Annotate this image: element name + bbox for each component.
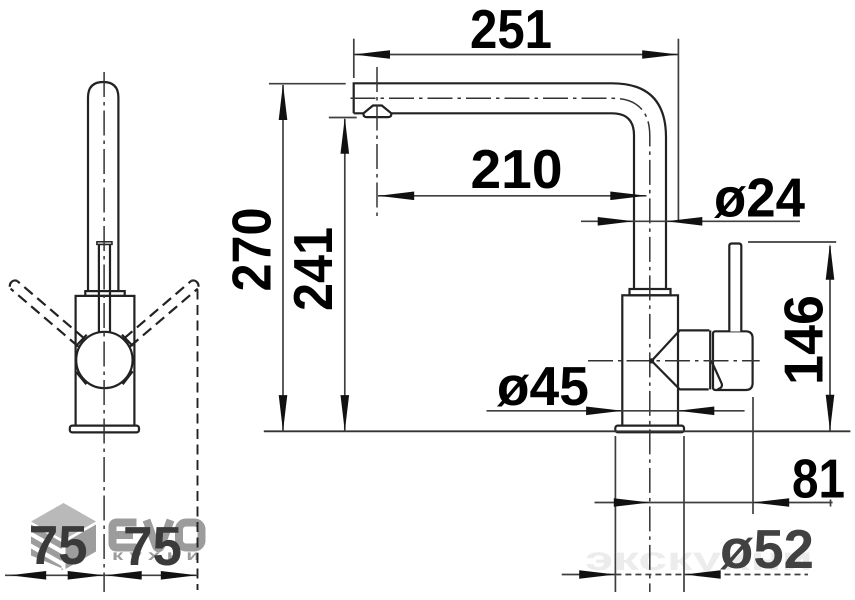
dim o24 arrow right bbox=[666, 217, 702, 226]
watermark cube top face bbox=[31, 503, 96, 540]
handle lever rod bbox=[729, 244, 741, 332]
dim 146 line bbox=[829, 246, 831, 431]
dim 241 ext top bbox=[329, 117, 357, 119]
dim 270 arrow up bbox=[279, 84, 288, 120]
dashed projection vertical right bbox=[197, 290, 199, 591]
front lever rod top cap bbox=[97, 242, 112, 245]
handle lever edge in grip bbox=[712, 362, 722, 390]
dim o24 arrow left bbox=[598, 217, 634, 226]
dim 75 line bbox=[5, 574, 198, 576]
dim 251 ext right bbox=[677, 39, 679, 222]
dim o52 line solid bbox=[562, 574, 616, 576]
front body cylinder bbox=[76, 296, 135, 426]
dim o45 line bbox=[487, 410, 745, 412]
front base flange bbox=[70, 426, 139, 433]
handle cone right edge bbox=[709, 330, 711, 389]
front cone tangent upper-left bbox=[76, 335, 87, 346]
dim 75 arrow far right bbox=[161, 571, 197, 580]
svg-text:75: 75 bbox=[29, 514, 88, 576]
dim 251 ext left bbox=[353, 39, 355, 78]
dim 75 arrow center right-point bbox=[68, 571, 104, 580]
dim 210 arrow left bbox=[378, 192, 414, 201]
front spout tube with dome top bbox=[88, 82, 118, 291]
svg-text:210: 210 bbox=[471, 138, 563, 200]
dim 241 arrow up bbox=[341, 118, 350, 154]
dim 210 arrow right bbox=[610, 192, 646, 201]
dim o45 arrow left bbox=[586, 407, 622, 416]
dim o24 line bbox=[581, 220, 800, 222]
front lever rod vertical bbox=[99, 244, 110, 334]
dim 81 arrow right bbox=[753, 498, 789, 507]
front ball joint circle bbox=[76, 332, 132, 388]
dim 251 arrow right bbox=[642, 50, 678, 59]
svg-text:75: 75 bbox=[123, 515, 182, 577]
svg-text:81: 81 bbox=[792, 447, 845, 509]
front centerline bbox=[103, 72, 105, 592]
front collar under spout bbox=[85, 291, 124, 296]
dim 81 end tick bbox=[830, 500, 832, 507]
dim o52 line dashed bbox=[615, 574, 684, 576]
side body cylinder bbox=[622, 295, 678, 425]
dim o45 arrow right bbox=[678, 407, 714, 416]
dim 270 ext top bbox=[269, 83, 346, 85]
dim o52 line dashed right bbox=[685, 574, 809, 576]
dim 270 line bbox=[282, 85, 284, 431]
counter baseline bbox=[264, 430, 851, 432]
svg-text:ø24: ø24 bbox=[714, 167, 805, 229]
extension below base right bbox=[683, 436, 685, 592]
handle cone joint bbox=[652, 330, 710, 389]
dim 241 line bbox=[344, 119, 346, 431]
dim 241 arrow down bbox=[341, 395, 350, 431]
svg-text:270: 270 bbox=[220, 208, 282, 292]
dashed lever swung left line2 bbox=[11, 289, 79, 347]
watermark EVO letter V bbox=[147, 520, 171, 548]
dashed lever swung left line1 bbox=[17, 281, 84, 339]
dim o52 arrow right bbox=[685, 570, 721, 579]
dashed lever swung right line1 bbox=[124, 281, 191, 339]
extension below base left bbox=[614, 436, 616, 592]
svg-text:ø52: ø52 bbox=[720, 518, 814, 580]
cone apex junction dot bbox=[649, 358, 654, 363]
dashed lever swung right line2 bbox=[130, 289, 198, 347]
dim 251 arrow left bbox=[354, 50, 390, 59]
svg-text:251: 251 bbox=[470, 0, 552, 60]
handle grip bbox=[713, 331, 753, 390]
dim 146 arrow up bbox=[826, 244, 835, 280]
spout inner contour with bend bbox=[354, 113, 634, 289]
dim 146 ext top bbox=[748, 241, 836, 243]
svg-text:241: 241 bbox=[282, 227, 344, 311]
front cone tangent lower-left bbox=[76, 372, 86, 384]
watermark cube right face bbox=[66, 525, 97, 570]
handle axis centerline bbox=[588, 360, 760, 362]
dim 81 arrow left bbox=[614, 498, 650, 507]
tube centerline horizontal and bend bbox=[351, 98, 650, 592]
watermark EVO letter E bbox=[113, 523, 137, 548]
dashed lever swung left cap bbox=[10, 280, 17, 288]
svg-text:146: 146 bbox=[773, 295, 835, 385]
dim 75 arrow center left-point bbox=[106, 571, 142, 580]
dim 210 line bbox=[378, 195, 647, 197]
watermark EVO letter O bbox=[179, 523, 202, 548]
spout outer contour with bend bbox=[354, 83, 666, 289]
side base flange bbox=[615, 426, 684, 433]
watermark cube left face bbox=[31, 525, 64, 571]
aerator axis centerline bbox=[376, 67, 378, 219]
dashed lever swung right cap bbox=[191, 280, 198, 288]
dim 81 ext bbox=[752, 397, 754, 514]
dim o52 arrow left bbox=[579, 570, 615, 579]
aerator outlet bbox=[364, 106, 392, 118]
dim 251 line bbox=[354, 54, 679, 56]
dim 146 arrow down bbox=[826, 395, 835, 431]
dim 81 line bbox=[595, 502, 833, 504]
dim 270 arrow down bbox=[279, 395, 288, 431]
front cone tangent lower-right bbox=[123, 371, 133, 384]
dim 75 arrow far left bbox=[10, 571, 46, 580]
side collar under tube bbox=[630, 289, 671, 295]
svg-text:ø45: ø45 bbox=[497, 355, 589, 417]
front cone tangent upper-right bbox=[122, 335, 133, 346]
